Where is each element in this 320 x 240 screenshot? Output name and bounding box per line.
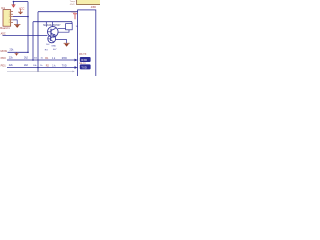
wire vertical B	[32, 22, 34, 60]
supply VCC2 right	[73, 14, 77, 19]
svg-text:TXD: TXD	[81, 65, 87, 69]
svg-text:5: 5	[9, 22, 10, 24]
svg-text:GND: GND	[51, 46, 56, 48]
svg-text:Board 1: Board 1	[0, 26, 10, 30]
junction top VCC	[13, 1, 15, 3]
wire net 3	[33, 21, 72, 23]
svg-text:RX-TX: RX-TX	[79, 63, 86, 65]
wire pin2 to vertical A	[13, 16, 28, 18]
svg-text:1k2: 1k2	[46, 44, 50, 46]
junction row A	[27, 52, 29, 54]
svg-text:VCC: VCC	[71, 12, 76, 14]
wire row C TXD	[7, 67, 75, 69]
wire top net 2	[38, 11, 78, 13]
svg-text:22k: 22k	[10, 48, 15, 51]
wire row A	[8, 51, 29, 53]
svg-text:RXD: RXD	[62, 57, 67, 60]
wire row B RXD	[7, 59, 75, 61]
svg-text:IC1: IC1	[1, 6, 6, 10]
svg-text:MAX232 BC547: MAX232 BC547	[43, 24, 61, 27]
svg-text:4/5/8: 4/5/8	[70, 4, 75, 6]
svg-text:10k: 10k	[34, 58, 38, 60]
IC U1 body	[3, 10, 11, 27]
svg-text:PD1: PD1	[1, 63, 7, 67]
U1 pin numbers	[9, 11, 10, 24]
wire pin4 to G2	[13, 20, 17, 25]
svg-text:1 k: 1 k	[52, 57, 56, 60]
svg-text:ADC: ADC	[1, 33, 6, 36]
svg-text:PD0: PD0	[1, 56, 7, 60]
wire faint row	[7, 70, 72, 72]
junction row C	[37, 67, 39, 69]
junction row B	[32, 59, 34, 61]
ground G1	[18, 9, 23, 14]
wire Q1 base stem	[45, 22, 47, 27]
svg-text:22k: 22k	[9, 64, 14, 67]
svg-text:1 k: 1 k	[52, 64, 56, 67]
junction pin2	[27, 16, 29, 18]
wire vertical A	[27, 2, 29, 53]
ground G2	[14, 25, 20, 28]
junction faint row	[37, 71, 38, 72]
wire R3 to Q1	[58, 30, 69, 32]
svg-text:MOSI: MOSI	[1, 49, 8, 53]
svg-text:2k2: 2k2	[24, 64, 29, 67]
arrow row C	[75, 66, 78, 69]
wire Q2 to ground	[55, 40, 66, 43]
wire Q1 top stem	[52, 22, 54, 27]
transistor Q1	[48, 27, 59, 38]
wire VCC top	[14, 1, 29, 3]
svg-text:1k: 1k	[76, 26, 78, 28]
svg-text:1k: 1k	[40, 65, 43, 67]
arrow row B	[75, 59, 78, 62]
supply VCC symbol	[12, 2, 16, 8]
svg-text:R3: R3	[45, 49, 49, 51]
svg-text:R1: R1	[45, 57, 49, 60]
transistor Q2	[48, 35, 56, 43]
sheet frame box right	[78, 10, 96, 78]
svg-text:2k2: 2k2	[24, 57, 29, 60]
svg-text:VCC: VCC	[19, 6, 25, 10]
svg-text:4k7: 4k7	[53, 49, 57, 51]
svg-text:RX-TX: RX-TX	[79, 53, 87, 56]
port RXD	[80, 57, 91, 62]
wire vertical C	[37, 12, 39, 72]
svg-text:3: 3	[9, 16, 10, 18]
svg-text:22k: 22k	[9, 57, 14, 60]
ground G5 row A	[15, 52, 19, 56]
port TXD	[80, 64, 91, 69]
wire into R3	[71, 22, 73, 24]
ground G4 middle	[64, 43, 70, 47]
svg-text:1k: 1k	[41, 58, 44, 60]
svg-text:4/5R: 4/5R	[91, 6, 96, 9]
U1 pins	[11, 12, 13, 23]
svg-text:R2: R2	[46, 64, 50, 67]
title frame yellow top right	[77, 0, 102, 5]
svg-text:10k: 10k	[33, 65, 37, 67]
arrow faint row	[72, 71, 74, 73]
wire ADC long	[3, 35, 48, 37]
svg-text:RXD: RXD	[81, 58, 87, 62]
svg-text:TXD: TXD	[62, 64, 67, 67]
resistor R3	[66, 24, 73, 30]
wire Q1 collector right	[58, 28, 66, 30]
